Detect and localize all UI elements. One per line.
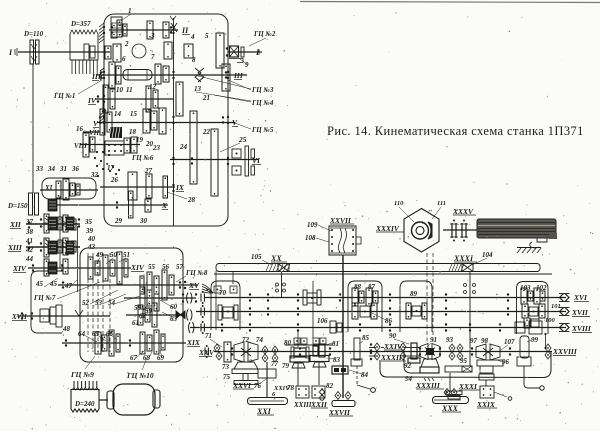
svg-text:28: 28 (187, 196, 196, 204)
svg-text:57: 57 (176, 263, 184, 271)
svg-text:XVII: XVII (571, 308, 589, 317)
svg-text:36: 36 (71, 165, 80, 173)
svg-text:31: 31 (59, 165, 67, 173)
svg-text:9: 9 (245, 61, 249, 69)
svg-text:41: 41 (25, 237, 33, 245)
svg-text:29: 29 (114, 217, 123, 225)
svg-text:VIII: VIII (74, 142, 87, 150)
svg-text:D=357: D=357 (70, 20, 91, 28)
svg-text:XXV: XXV (198, 348, 215, 357)
svg-text:79: 79 (282, 362, 290, 370)
svg-text:D=240: D=240 (74, 400, 95, 408)
svg-text:96: 96 (502, 358, 510, 366)
svg-text:85: 85 (362, 334, 370, 342)
svg-text:77: 77 (271, 360, 279, 368)
svg-text:X: X (161, 201, 168, 210)
svg-text:26: 26 (110, 176, 119, 184)
svg-text:6: 6 (122, 55, 126, 63)
svg-text:34: 34 (47, 165, 56, 173)
svg-text:25: 25 (238, 135, 247, 144)
svg-text:27: 27 (144, 167, 153, 175)
svg-text:51: 51 (123, 251, 130, 259)
svg-text:101: 101 (551, 303, 561, 310)
svg-text:44: 44 (25, 255, 34, 263)
svg-text:ГЦ №4: ГЦ №4 (251, 99, 274, 107)
svg-text:XII: XII (9, 220, 22, 229)
svg-text:108: 108 (305, 234, 316, 242)
svg-text:II: II (181, 26, 189, 35)
svg-text:11: 11 (126, 86, 133, 94)
svg-text:72: 72 (242, 336, 250, 344)
svg-text:XXVIII: XXVIII (552, 347, 578, 356)
svg-text:55: 55 (148, 263, 156, 271)
svg-text:ГЦ №7: ГЦ №7 (33, 294, 56, 302)
svg-text:ГЦ №5: ГЦ №5 (251, 126, 274, 134)
svg-text:50: 50 (110, 251, 118, 259)
svg-text:XVII: XVII (11, 313, 27, 321)
svg-text:81: 81 (332, 340, 339, 348)
svg-text:ГЦ №9: ГЦ №9 (70, 370, 94, 379)
svg-text:4: 4 (190, 33, 195, 41)
svg-text:84: 84 (361, 371, 369, 379)
svg-text:5: 5 (205, 32, 209, 40)
svg-text:IX: IX (175, 183, 185, 192)
svg-text:64: 64 (78, 330, 86, 338)
svg-text:XIX: XIX (186, 338, 201, 347)
svg-text:2: 2 (124, 40, 129, 48)
svg-text:ГЦ №1: ГЦ №1 (53, 92, 75, 100)
svg-text:74: 74 (256, 336, 264, 344)
svg-text:14: 14 (114, 110, 122, 118)
svg-text:VI: VI (252, 156, 261, 165)
svg-text:38: 38 (25, 228, 34, 236)
svg-text:109: 109 (307, 221, 318, 229)
svg-text:33: 33 (35, 165, 44, 173)
svg-text:ГЦ №3: ГЦ №3 (251, 86, 274, 94)
svg-text:16: 16 (76, 125, 84, 133)
svg-text:23: 23 (152, 144, 161, 152)
svg-text:60: 60 (170, 303, 178, 311)
svg-text:XI: XI (44, 184, 53, 192)
svg-text:53: 53 (95, 299, 103, 307)
svg-text:49: 49 (95, 251, 104, 259)
svg-text:D=110: D=110 (23, 30, 44, 38)
svg-text:3: 3 (150, 32, 155, 40)
svg-text:35: 35 (84, 218, 93, 226)
svg-text:15: 15 (130, 110, 138, 118)
svg-text:ГЦ №6: ГЦ №6 (131, 154, 154, 162)
svg-text:ГЦ №2: ГЦ №2 (253, 30, 276, 38)
svg-text:92: 92 (404, 362, 412, 370)
svg-text:95: 95 (460, 357, 468, 365)
svg-text:30: 30 (139, 217, 148, 225)
svg-text:52: 52 (82, 299, 90, 307)
svg-text:ГЦ №8: ГЦ №8 (185, 269, 208, 277)
svg-text:21: 21 (202, 94, 210, 102)
svg-text:39: 39 (85, 227, 94, 235)
svg-text:ГЦ №10: ГЦ №10 (126, 371, 154, 380)
svg-text:43: 43 (87, 243, 96, 251)
svg-text:10: 10 (116, 86, 124, 94)
svg-text:D=150: D=150 (7, 202, 28, 210)
svg-text:91: 91 (430, 336, 437, 344)
svg-text:III: III (233, 71, 244, 80)
svg-text:13: 13 (194, 85, 202, 93)
svg-text:IV: IV (87, 96, 97, 105)
svg-text:90: 90 (389, 332, 397, 340)
svg-text:73: 73 (222, 363, 230, 371)
svg-text:99: 99 (531, 336, 539, 344)
svg-text:111: 111 (437, 200, 446, 207)
svg-text:106: 106 (317, 317, 328, 325)
svg-text:32: 32 (90, 171, 99, 179)
svg-text:69: 69 (157, 354, 165, 362)
svg-text:XIII: XIII (7, 243, 23, 252)
svg-text:93: 93 (446, 336, 454, 344)
svg-text:97: 97 (470, 337, 478, 345)
svg-text:24: 24 (179, 143, 188, 151)
svg-text:45: 45 (35, 280, 44, 288)
svg-text:VII: VII (89, 129, 99, 137)
svg-text:71: 71 (205, 332, 212, 340)
svg-text:22: 22 (202, 128, 211, 136)
svg-text:75: 75 (223, 373, 231, 381)
svg-text:86: 86 (385, 317, 393, 325)
svg-text:XVIII: XVIII (571, 324, 592, 333)
svg-text:105: 105 (251, 253, 262, 261)
svg-text:XVI: XVI (573, 293, 588, 302)
svg-text:40: 40 (87, 235, 96, 243)
svg-text:104: 104 (482, 251, 493, 259)
svg-text:8: 8 (192, 56, 196, 64)
svg-text:89: 89 (410, 290, 418, 298)
svg-text:XIV: XIV (12, 264, 27, 273)
svg-text:78: 78 (287, 384, 295, 392)
svg-text:19: 19 (136, 136, 144, 144)
svg-text:100: 100 (545, 317, 556, 324)
svg-text:110: 110 (394, 200, 404, 207)
svg-text:82: 82 (326, 382, 334, 390)
svg-text:12: 12 (149, 83, 157, 91)
svg-text:XXIII: XXIII (293, 401, 312, 409)
svg-text:7: 7 (151, 53, 155, 61)
svg-text:Рис. 14. Кинематическая схема: Рис. 14. Кинематическая схема станка 1П3… (327, 124, 584, 138)
svg-text:94: 94 (405, 375, 413, 383)
svg-text:42: 42 (25, 246, 34, 254)
svg-text:XV: XV (188, 281, 200, 290)
svg-text:83: 83 (333, 356, 341, 364)
svg-text:XIV: XIV (130, 263, 145, 272)
svg-text:107: 107 (504, 338, 515, 346)
svg-text:98: 98 (481, 337, 489, 345)
svg-text:1: 1 (128, 7, 132, 15)
svg-text:37: 37 (25, 218, 34, 226)
svg-text:18: 18 (129, 128, 137, 136)
